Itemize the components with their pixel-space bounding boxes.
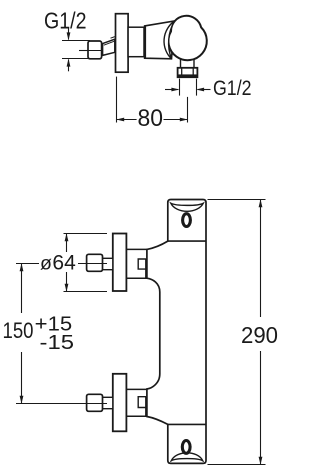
node: angled connector pipe between nut and wall plate <box>103 39 115 55</box>
node: dim line 290 with arrows <box>260 200 262 318</box>
wire: lower center line <box>16 403 107 405</box>
svg-text:G1/2: G1/2 <box>213 77 252 100</box>
node: lower stub clip notch <box>138 397 146 408</box>
wire: G1/2 top-left extension lines <box>62 40 90 42</box>
svg-text:G1/2: G1/2 <box>44 7 87 33</box>
node: inlet union nut (top view) <box>88 41 102 59</box>
node: mixer body outline (front view) <box>147 200 206 464</box>
svg-text:-15: -15 <box>40 332 75 354</box>
svg-text:290: 290 <box>241 322 278 348</box>
node: tapered valve body <box>145 21 175 59</box>
node: outlet nut G1/2 (top view) <box>178 68 198 77</box>
node: upper union nut <box>87 254 103 271</box>
node: upper connection stub <box>127 249 147 278</box>
node: wall plate (top view) <box>116 14 129 72</box>
wire: 290 extension line bottom <box>208 464 266 466</box>
node: bottom knob 0 marking <box>182 441 190 454</box>
node: dim line o64 with arrows <box>66 234 68 253</box>
wire: center line through nut <box>88 50 113 52</box>
svg-text:80: 80 <box>138 105 164 132</box>
node: outlet stem below knob <box>181 55 195 68</box>
node: handle knob (top view, circle with top bump) <box>168 16 206 60</box>
wire: upper center line (left part, before text) <box>16 263 39 265</box>
wire: outlet dim extension lines <box>179 79 181 96</box>
wire: 290 extension line top <box>208 199 266 201</box>
wire: bottom knob shoulder line <box>168 423 206 425</box>
wire: 80-dim right extension (outlet center line) <box>187 97 189 123</box>
node: lower escutcheon plate <box>113 374 127 432</box>
node: top knob eyelid arcs <box>171 203 204 211</box>
node: arrow up to lower line (G1/2 left dim) <box>68 60 70 72</box>
wire: o64 extension lines <box>64 233 108 235</box>
node: valve neck cylinder <box>128 27 144 57</box>
node: upper escutcheon plate <box>113 234 127 292</box>
svg-text:150: 150 <box>3 318 34 343</box>
node: arrow left toward outlet right edge <box>198 89 211 91</box>
wire: center line stub left of inlet nut <box>79 50 88 52</box>
node: arrow right toward outlet left edge <box>165 89 178 91</box>
node: lower connection stub <box>127 389 147 416</box>
node: upper stub clip notch <box>138 259 146 269</box>
node: bottom knob eyelid arcs <box>171 453 202 461</box>
wire: upper center line (right part through nut) <box>78 263 107 265</box>
node: lower union nut <box>87 394 103 411</box>
wire: top knob shoulder line <box>168 240 206 242</box>
node: arrow down to upper line (G1/2 left dim) <box>68 27 70 40</box>
wire: 80-dim left extension line (wall face) <box>116 77 118 123</box>
node: dim line 150 with arrows <box>21 264 23 314</box>
node: knob skirt crescent <box>164 21 174 59</box>
node: top knob 0 marking <box>183 214 191 227</box>
node: upper inlet cylinder <box>102 258 113 269</box>
svg-text:ø64: ø64 <box>40 252 76 275</box>
node: lower inlet cylinder <box>102 397 113 408</box>
node: dim line 80 with arrows <box>117 119 137 121</box>
